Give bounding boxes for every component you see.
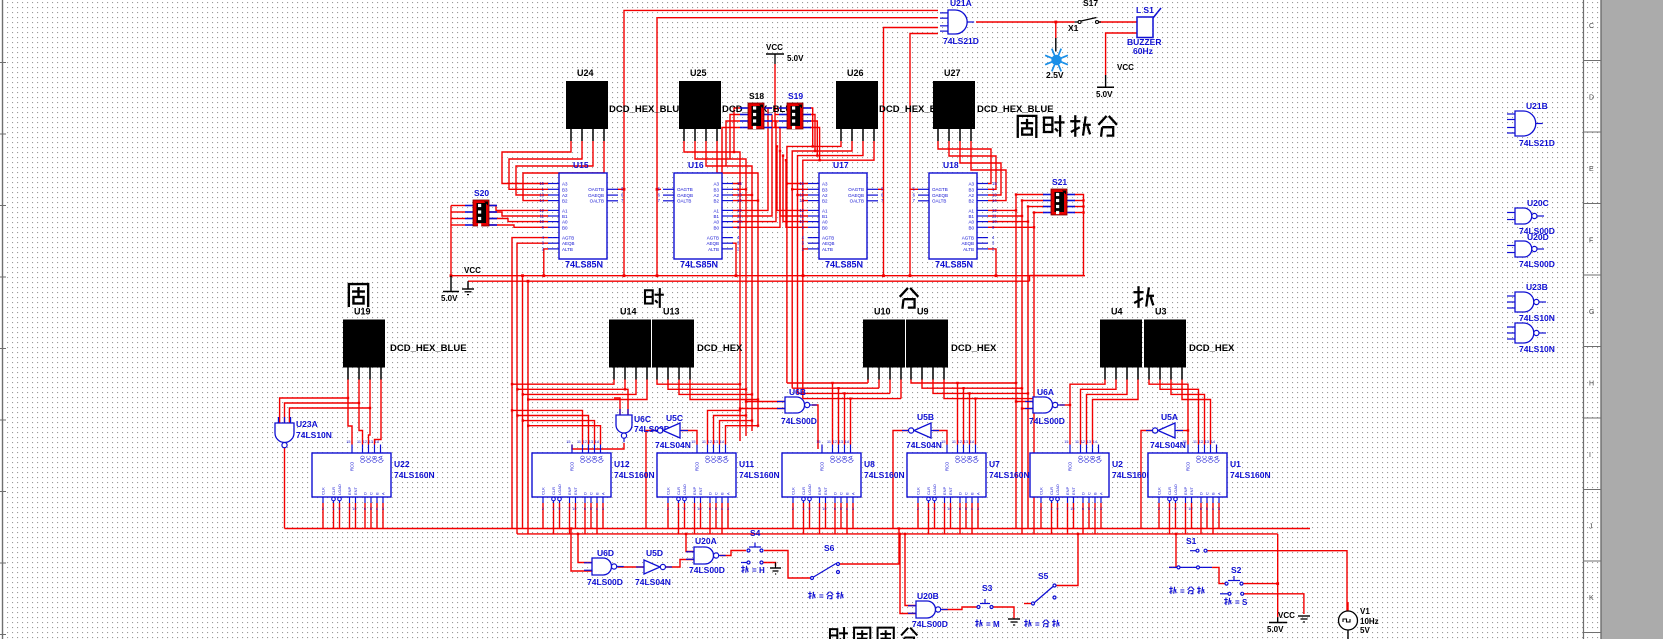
svg-text:74LS04N: 74LS04N: [635, 577, 671, 587]
svg-text:CLK: CLK: [321, 487, 326, 495]
svg-text:4: 4: [971, 507, 973, 511]
svg-text:9: 9: [933, 507, 935, 511]
svg-text:AGTB: AGTB: [822, 236, 834, 241]
svg-text:6: 6: [709, 507, 711, 511]
svg-text:ENT: ENT: [1189, 486, 1194, 495]
svg-text:U6B: U6B: [789, 387, 806, 397]
svg-text:15: 15: [799, 181, 804, 186]
svg-text:6: 6: [834, 507, 836, 511]
svg-text:U5B: U5B: [917, 412, 934, 422]
svg-text:B0: B0: [562, 225, 568, 230]
svg-text:B: B: [375, 492, 380, 495]
svg-text:=: =: [1180, 587, 1185, 596]
svg-text:U2: U2: [1112, 459, 1123, 469]
svg-text:B: B: [970, 492, 975, 495]
svg-text:=: =: [819, 592, 824, 601]
svg-text:S4: S4: [750, 528, 761, 538]
svg-text:B3: B3: [822, 187, 828, 192]
svg-text:B0: B0: [968, 225, 974, 230]
svg-text:U24: U24: [577, 68, 594, 78]
svg-text:C: C: [839, 492, 844, 495]
svg-text:U22: U22: [394, 459, 410, 469]
svg-text:S5: S5: [1038, 571, 1049, 581]
svg-text:3: 3: [852, 507, 854, 511]
svg-text:10: 10: [947, 507, 951, 511]
svg-text:RCO: RCO: [945, 461, 950, 471]
svg-text:A: A: [851, 492, 856, 495]
svg-text:14: 14: [970, 440, 974, 444]
svg-text:ALTB: ALTB: [562, 247, 573, 252]
svg-text:S19: S19: [788, 91, 803, 101]
svg-text:ALTB: ALTB: [963, 247, 974, 252]
svg-text:13: 13: [589, 440, 593, 444]
svg-text:2: 2: [542, 507, 544, 511]
svg-text:OAGTB: OAGTB: [677, 187, 693, 192]
svg-text:DCD_HEX: DCD_HEX: [951, 343, 997, 354]
svg-text:74LS10N: 74LS10N: [296, 430, 332, 440]
svg-text:10: 10: [539, 219, 544, 224]
svg-text:15: 15: [539, 181, 544, 186]
svg-text:ENT: ENT: [948, 486, 953, 495]
svg-text:OAEQB: OAEQB: [588, 193, 604, 198]
svg-text:=: =: [752, 566, 757, 575]
svg-text:14: 14: [595, 440, 599, 444]
svg-text:VCC: VCC: [1278, 611, 1295, 620]
svg-text:9: 9: [808, 507, 810, 511]
svg-text:L S1: L S1: [1136, 5, 1154, 15]
svg-text:74LS00D: 74LS00D: [1029, 416, 1065, 426]
svg-text:7: 7: [348, 507, 350, 511]
svg-text:3: 3: [1218, 507, 1220, 511]
svg-text:K: K: [1589, 595, 1594, 602]
svg-text:B0: B0: [822, 225, 828, 230]
svg-text:V1: V1: [1360, 607, 1370, 616]
svg-text:74LS04N: 74LS04N: [906, 440, 942, 450]
svg-text:U18: U18: [943, 160, 959, 170]
svg-text:U20D: U20D: [1527, 232, 1549, 242]
svg-text:A1: A1: [713, 208, 719, 213]
svg-text:A2: A2: [968, 193, 974, 198]
svg-text:S18: S18: [749, 91, 764, 101]
svg-text:U12: U12: [614, 459, 630, 469]
svg-text:2: 2: [667, 507, 669, 511]
svg-text:RCO: RCO: [695, 461, 700, 471]
svg-text:CLR: CLR: [1049, 487, 1054, 495]
svg-text:74LS21D: 74LS21D: [943, 36, 979, 46]
svg-text:DCD_HEX_BLUE: DCD_HEX_BLUE: [977, 104, 1054, 115]
svg-text:LOAD: LOAD: [682, 484, 687, 495]
svg-text:11: 11: [1075, 440, 1079, 444]
svg-text:U6D: U6D: [597, 548, 614, 558]
svg-text:11: 11: [577, 440, 581, 444]
svg-text:12: 12: [1081, 440, 1085, 444]
svg-text:CLR: CLR: [676, 487, 681, 495]
svg-text:U10: U10: [874, 307, 891, 317]
svg-text:OAGTB: OAGTB: [588, 187, 604, 192]
svg-text:10Hz: 10Hz: [1360, 617, 1379, 626]
svg-text:C: C: [369, 492, 374, 495]
svg-text:74LS85N: 74LS85N: [935, 260, 973, 270]
svg-text:ENT: ENT: [353, 486, 358, 495]
svg-text:2: 2: [917, 507, 919, 511]
svg-text:ALTB: ALTB: [822, 247, 833, 252]
svg-text:RCO: RCO: [570, 461, 575, 471]
svg-text:A: A: [1099, 492, 1104, 495]
svg-text:CLK: CLK: [541, 487, 546, 495]
svg-text:AGTB: AGTB: [707, 236, 719, 241]
svg-text:U21B: U21B: [1526, 101, 1548, 111]
svg-text:4: 4: [596, 507, 598, 511]
svg-text:1: 1: [927, 507, 929, 511]
svg-text:6: 6: [959, 507, 961, 511]
svg-text:U21A: U21A: [950, 0, 972, 8]
svg-text:12: 12: [799, 208, 804, 213]
svg-text:11: 11: [1193, 440, 1197, 444]
svg-text:CLR: CLR: [1167, 487, 1172, 495]
svg-text:14: 14: [992, 198, 997, 203]
svg-text:13: 13: [964, 440, 968, 444]
svg-text:9: 9: [683, 507, 685, 511]
svg-text:11: 11: [702, 440, 706, 444]
svg-text:U3: U3: [1155, 307, 1167, 317]
svg-text:13: 13: [799, 193, 804, 198]
svg-text:A0: A0: [713, 220, 719, 225]
svg-text:A3: A3: [822, 182, 828, 187]
svg-text:U1: U1: [1230, 459, 1241, 469]
svg-text:2: 2: [1040, 507, 1042, 511]
svg-text:74LS10N: 74LS10N: [1519, 344, 1555, 354]
svg-text:D: D: [958, 492, 963, 495]
svg-text:U19: U19: [354, 307, 371, 317]
svg-text:H: H: [1589, 381, 1594, 388]
svg-text:U25: U25: [690, 68, 707, 78]
svg-text:RCO: RCO: [820, 461, 825, 471]
svg-text:5.0V: 5.0V: [441, 294, 458, 303]
svg-text:QA: QA: [1215, 455, 1221, 463]
svg-text:OALTB: OALTB: [932, 199, 946, 204]
svg-text:B1: B1: [822, 214, 828, 219]
svg-text:U14: U14: [620, 307, 637, 317]
svg-text:11: 11: [737, 214, 742, 219]
svg-text:12: 12: [708, 440, 712, 444]
svg-text:4: 4: [1212, 507, 1214, 511]
svg-text:13: 13: [714, 440, 718, 444]
svg-text:14: 14: [1211, 440, 1215, 444]
svg-text:6: 6: [1082, 507, 1084, 511]
svg-text:A: A: [601, 492, 606, 495]
svg-text:B: B: [1093, 492, 1098, 495]
svg-text:74LS160N: 74LS160N: [739, 470, 780, 480]
svg-text:S21: S21: [1052, 177, 1067, 187]
svg-text:U20B: U20B: [917, 591, 939, 601]
svg-text:LOAD: LOAD: [807, 484, 812, 495]
svg-text:74LS160N: 74LS160N: [1112, 470, 1153, 480]
svg-text:U4: U4: [1111, 307, 1123, 317]
svg-text:B2: B2: [968, 199, 974, 204]
svg-text:LOAD: LOAD: [932, 484, 937, 495]
svg-text:B1: B1: [562, 214, 568, 219]
svg-text:A3: A3: [968, 182, 974, 187]
svg-text:9: 9: [1056, 507, 1058, 511]
svg-text:D: D: [1081, 492, 1086, 495]
svg-text:H: H: [759, 566, 765, 575]
svg-text:14: 14: [720, 440, 724, 444]
svg-text:U9: U9: [917, 307, 929, 317]
svg-text:5: 5: [840, 507, 842, 511]
svg-text:7: 7: [818, 507, 820, 511]
svg-text:3: 3: [1100, 507, 1102, 511]
svg-text:15: 15: [816, 440, 820, 444]
svg-text:OAEQB: OAEQB: [932, 193, 948, 198]
svg-text:B3: B3: [968, 187, 974, 192]
svg-text:LOAD: LOAD: [1055, 484, 1060, 495]
svg-text:S3: S3: [982, 583, 993, 593]
svg-text:10: 10: [1070, 507, 1074, 511]
svg-text:U20C: U20C: [1527, 198, 1549, 208]
svg-text:4: 4: [1094, 507, 1096, 511]
svg-text:A1: A1: [822, 208, 828, 213]
svg-text:15: 15: [566, 440, 570, 444]
svg-text:74LS00D: 74LS00D: [634, 424, 670, 434]
svg-text:X1: X1: [1068, 23, 1079, 33]
svg-text:B: B: [720, 492, 725, 495]
svg-text:ALTB: ALTB: [708, 247, 719, 252]
svg-text:A3: A3: [562, 182, 568, 187]
svg-text:11: 11: [540, 214, 545, 219]
svg-text:13: 13: [539, 193, 544, 198]
svg-text:15: 15: [992, 181, 997, 186]
svg-text:OAEQB: OAEQB: [848, 193, 864, 198]
svg-text:13: 13: [1205, 440, 1209, 444]
svg-text:RCO: RCO: [350, 461, 355, 471]
svg-text:VCC: VCC: [464, 266, 481, 275]
svg-text:CLK: CLK: [1039, 487, 1044, 495]
svg-text:5: 5: [965, 507, 967, 511]
svg-text:CLR: CLR: [801, 487, 806, 495]
svg-text:12: 12: [583, 440, 587, 444]
svg-text:OALTB: OALTB: [677, 199, 691, 204]
svg-text:12: 12: [737, 208, 742, 213]
svg-text:12: 12: [833, 440, 837, 444]
svg-text:3: 3: [382, 507, 384, 511]
svg-text:U27: U27: [944, 68, 961, 78]
svg-text:OALTB: OALTB: [850, 199, 864, 204]
svg-text:=: =: [986, 620, 991, 629]
svg-text:B: B: [595, 492, 600, 495]
svg-text:1: 1: [1168, 507, 1170, 511]
svg-text:LOAD: LOAD: [1173, 484, 1178, 495]
svg-text:S1: S1: [1186, 536, 1197, 546]
svg-text:U5A: U5A: [1161, 412, 1178, 422]
svg-text:14: 14: [375, 440, 379, 444]
svg-text:5: 5: [370, 507, 372, 511]
svg-text:S6: S6: [824, 543, 835, 553]
svg-text:12: 12: [958, 440, 962, 444]
svg-text:2: 2: [1158, 507, 1160, 511]
svg-text:DCD_HEX: DCD_HEX: [1189, 343, 1235, 354]
svg-text:E: E: [1589, 166, 1594, 173]
svg-text:4: 4: [846, 507, 848, 511]
svg-text:ENP: ENP: [692, 486, 697, 495]
svg-text:74LS00D: 74LS00D: [781, 416, 817, 426]
svg-text:ENP: ENP: [1183, 486, 1188, 495]
svg-text:=: =: [1235, 598, 1240, 607]
svg-text:5: 5: [1088, 507, 1090, 511]
svg-text:CLK: CLK: [1157, 487, 1162, 495]
svg-text:74LS04N: 74LS04N: [1150, 440, 1186, 450]
svg-text:15: 15: [346, 440, 350, 444]
svg-text:7: 7: [943, 507, 945, 511]
svg-text:OAEQB: OAEQB: [677, 193, 693, 198]
svg-text:B0: B0: [713, 225, 719, 230]
svg-text:74LS00D: 74LS00D: [912, 619, 948, 629]
svg-text:G: G: [1589, 309, 1594, 316]
svg-text:10: 10: [822, 507, 826, 511]
svg-text:QA: QA: [849, 455, 855, 463]
svg-text:D: D: [708, 492, 713, 495]
svg-text:B1: B1: [713, 214, 719, 219]
svg-text:74LS21D: 74LS21D: [1519, 138, 1555, 148]
svg-text:A1: A1: [968, 208, 974, 213]
svg-text:C: C: [714, 492, 719, 495]
svg-text:9: 9: [338, 507, 340, 511]
svg-text:J: J: [1589, 524, 1593, 531]
svg-text:1: 1: [332, 507, 334, 511]
svg-text:CLK: CLK: [666, 487, 671, 495]
svg-text:74LS04N: 74LS04N: [655, 440, 691, 450]
svg-text:3: 3: [602, 507, 604, 511]
svg-text:C: C: [1087, 492, 1092, 495]
svg-text:ENT: ENT: [823, 486, 828, 495]
svg-text:U16: U16: [688, 160, 704, 170]
svg-text:U13: U13: [663, 307, 680, 317]
svg-text:QA: QA: [724, 455, 730, 463]
svg-text:74LS85N: 74LS85N: [565, 260, 603, 270]
svg-text:U7: U7: [989, 459, 1000, 469]
svg-text:A: A: [976, 492, 981, 495]
svg-text:5: 5: [715, 507, 717, 511]
svg-text:AGTB: AGTB: [562, 236, 574, 241]
svg-text:6: 6: [1200, 507, 1202, 511]
svg-text:14: 14: [1093, 440, 1097, 444]
svg-text:B: B: [845, 492, 850, 495]
svg-text:OAGTB: OAGTB: [848, 187, 864, 192]
svg-text:13: 13: [737, 193, 742, 198]
svg-text:OALTB: OALTB: [590, 199, 604, 204]
svg-text:=: =: [1035, 620, 1040, 629]
svg-text:2: 2: [322, 507, 324, 511]
svg-text:CLR: CLR: [331, 487, 336, 495]
svg-text:13: 13: [1087, 440, 1091, 444]
svg-text:60Hz: 60Hz: [1133, 46, 1153, 56]
svg-text:15: 15: [737, 181, 742, 186]
svg-text:11: 11: [952, 440, 956, 444]
svg-text:1: 1: [552, 507, 554, 511]
svg-text:12: 12: [992, 208, 997, 213]
svg-text:4: 4: [376, 507, 378, 511]
svg-text:A1: A1: [562, 208, 568, 213]
svg-text:B3: B3: [713, 187, 719, 192]
svg-text:12: 12: [1199, 440, 1203, 444]
svg-text:10: 10: [737, 219, 742, 224]
svg-text:9: 9: [1174, 507, 1176, 511]
svg-text:U8: U8: [864, 459, 875, 469]
svg-text:10: 10: [992, 219, 997, 224]
svg-text:I: I: [1589, 452, 1591, 459]
svg-text:QA: QA: [974, 455, 980, 463]
svg-text:5.0V: 5.0V: [787, 54, 804, 63]
svg-text:74LS00D: 74LS00D: [1519, 259, 1555, 269]
svg-text:10: 10: [572, 507, 576, 511]
svg-text:AEQB: AEQB: [822, 241, 835, 246]
svg-text:74LS160N: 74LS160N: [864, 470, 905, 480]
svg-text:LOAD: LOAD: [557, 484, 562, 495]
svg-text:14: 14: [845, 440, 849, 444]
svg-text:A2: A2: [822, 193, 828, 198]
svg-text:6: 6: [364, 507, 366, 511]
svg-text:AGTB: AGTB: [962, 236, 974, 241]
svg-text:U23A: U23A: [296, 419, 318, 429]
svg-text:U26: U26: [847, 68, 864, 78]
svg-text:U23B: U23B: [1526, 282, 1548, 292]
svg-text:C: C: [589, 492, 594, 495]
svg-text:7: 7: [693, 507, 695, 511]
svg-text:74LS85N: 74LS85N: [680, 260, 718, 270]
svg-text:C: C: [964, 492, 969, 495]
svg-text:CLR: CLR: [551, 487, 556, 495]
svg-text:11: 11: [992, 214, 997, 219]
svg-text:U15: U15: [573, 160, 589, 170]
svg-text:1: 1: [1050, 507, 1052, 511]
svg-text:13: 13: [992, 193, 997, 198]
svg-text:4: 4: [721, 507, 723, 511]
svg-text:A0: A0: [822, 220, 828, 225]
svg-text:13: 13: [369, 440, 373, 444]
svg-text:U11: U11: [739, 459, 754, 469]
svg-text:B: B: [1211, 492, 1216, 495]
svg-text:5: 5: [1206, 507, 1208, 511]
svg-text:D: D: [1199, 492, 1204, 495]
svg-text:10: 10: [352, 507, 356, 511]
svg-text:12: 12: [363, 440, 367, 444]
svg-text:QA: QA: [599, 455, 605, 463]
svg-text:RCO: RCO: [1186, 461, 1191, 471]
svg-text:ENP: ENP: [1065, 486, 1070, 495]
svg-text:7: 7: [568, 507, 570, 511]
svg-text:10: 10: [1188, 507, 1192, 511]
svg-text:B2: B2: [713, 199, 719, 204]
svg-text:74LS160N: 74LS160N: [614, 470, 655, 480]
svg-text:U5C: U5C: [666, 413, 683, 423]
svg-text:B3: B3: [562, 187, 568, 192]
svg-text:U6A: U6A: [1037, 387, 1054, 397]
svg-text:11: 11: [800, 214, 805, 219]
svg-text:U5D: U5D: [646, 548, 663, 558]
svg-text:14: 14: [539, 198, 544, 203]
svg-text:74LS00D: 74LS00D: [587, 577, 623, 587]
svg-text:A3: A3: [713, 182, 719, 187]
svg-text:2: 2: [792, 507, 794, 511]
svg-text:F: F: [1589, 238, 1593, 245]
svg-text:74LS160N: 74LS160N: [989, 470, 1030, 480]
svg-text:DCD_HEX_BLUE: DCD_HEX_BLUE: [390, 343, 467, 354]
svg-text:2.5V: 2.5V: [1046, 70, 1064, 80]
svg-text:12: 12: [539, 208, 544, 213]
svg-text:S17: S17: [1083, 0, 1098, 8]
svg-text:AEQB: AEQB: [562, 241, 575, 246]
svg-text:5.0V: 5.0V: [1096, 90, 1113, 99]
svg-text:9: 9: [558, 507, 560, 511]
